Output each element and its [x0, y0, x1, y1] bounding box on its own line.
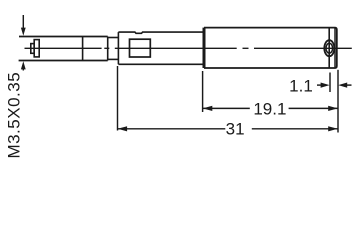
- dim M3.5 bottom arrow stem: [22, 68, 24, 71]
- tip (contact point): [31, 44, 34, 54]
- crimp step line through hole center: [328, 28, 330, 68]
- arrowhead M3.5 down: [21, 28, 26, 36]
- middle barrel left edge: [117, 32, 119, 64]
- arrowhead M3.5 up: [21, 61, 26, 69]
- body thick left edge: [203, 28, 206, 68]
- thread runout line: [82, 37, 84, 61]
- arrowhead 19.1 right: [328, 106, 338, 111]
- centerline main axis: [25, 47, 352, 49]
- ext line 1.1 left: [329, 73, 331, 93]
- middle barrel bottom line: [118, 63, 204, 65]
- body end inner line: [334, 28, 336, 67]
- flange collar: [34, 40, 39, 57]
- svg-text:M3.5X0.35: M3.5X0.35: [5, 72, 24, 159]
- thread crest bottom line / extension: [19, 60, 108, 62]
- thread crest top line / extension: [19, 36, 108, 38]
- dim 1.1 line right tail: [344, 84, 352, 86]
- thread end step: [107, 37, 109, 61]
- svg-text:31: 31: [226, 119, 245, 138]
- dim M3.5 top arrow: [22, 15, 24, 29]
- hole outer ellipse: [324, 40, 334, 56]
- body outline: [204, 28, 337, 68]
- svg-text:1.1: 1.1: [289, 76, 313, 95]
- ext line right end: [337, 70, 339, 133]
- dim 19.1 line: [203, 107, 250, 109]
- ext line 31 left: [117, 66, 119, 131]
- shank top: [108, 37, 119, 39]
- arrowhead 31 left: [118, 126, 128, 131]
- arrowhead 1.1 right pointing left: [338, 83, 347, 88]
- middle barrel top line: [118, 32, 204, 33]
- slot window: [130, 39, 151, 57]
- svg-text:19.1: 19.1: [253, 100, 286, 119]
- dim 31 line: [118, 128, 226, 130]
- dim 1.1 line left: [317, 84, 324, 86]
- arrowhead 1.1 left pointing right: [321, 83, 330, 88]
- shank bottom: [108, 58, 119, 60]
- hole inner ellipse: [326, 43, 333, 53]
- arrowhead 19.1 left: [203, 106, 213, 111]
- ext line 19.1 left: [202, 71, 204, 112]
- arrowhead 31 right: [328, 126, 338, 131]
